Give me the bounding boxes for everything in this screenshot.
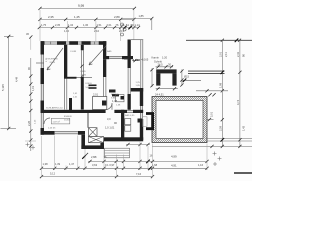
svg-text:ESSEN: ESSEN (64, 116, 72, 118)
middle wall left segment (41, 110, 105, 113)
entry steps (105, 148, 130, 158)
dimension line to detail (121, 18, 152, 20)
interior wall V1 (64, 45, 67, 77)
svg-text:20,95: 20,95 (50, 62, 56, 64)
svg-text:2,01: 2,01 (107, 23, 113, 27)
svg-text:1,75: 1,75 (41, 23, 47, 27)
plus marks lower right (213, 152, 217, 156)
bath left wall (121, 110, 124, 138)
svg-text:1,34: 1,34 (68, 23, 74, 27)
svg-text:2,41: 2,41 (236, 51, 240, 57)
cellar stair recess left wall (81, 135, 85, 149)
svg-text:=0,165: =0,165 (141, 59, 149, 62)
diagonal mark room1 (47, 48, 63, 70)
svg-text:7,16: 7,16 (136, 172, 142, 176)
diagonal mark room2 (89, 46, 106, 65)
svg-text:2,10: 2,10 (94, 29, 100, 33)
svg-text:1,51: 1,51 (97, 23, 103, 27)
extension lines top (39, 10, 41, 41)
svg-text:2,19: 2,19 (119, 29, 125, 33)
mini dim under bath (126, 144, 150, 146)
arrow right of garage (207, 119, 214, 121)
svg-text:0,1 0,97: 0,1 0,97 (105, 163, 115, 167)
dimension line row2 (40, 18, 134, 20)
svg-text:1,38: 1,38 (43, 162, 49, 166)
bath fixtures (125, 119, 131, 125)
svg-text:1,68: 1,68 (152, 163, 158, 167)
bath top wall (116, 110, 127, 113)
svg-text:1,87 m²: 1,87 m² (53, 120, 61, 123)
svg-text:2,59: 2,59 (218, 125, 222, 131)
svg-text:Ø15: Ø15 (184, 75, 189, 79)
lowest partial row (41, 176, 153, 178)
small tick top-left of wall (30, 36, 32, 49)
svg-text:1,39: 1,39 (55, 162, 61, 166)
middle wall door gap arc (106, 103, 113, 110)
horizontal lines lower right (206, 138, 252, 140)
svg-text:2,35: 2,35 (55, 23, 61, 27)
upper right wall (128, 40, 131, 69)
cellar stair recess bottom wall (81, 145, 104, 149)
tick at step wall end (124, 58, 129, 60)
canopy line and terrace lines (131, 39, 143, 41)
cellar stair recess right wall (100, 141, 104, 150)
svg-text:1,10: 1,10 (64, 29, 70, 33)
svg-text:BAD 4,95: BAD 4,95 (125, 114, 135, 117)
vertical dimension line A (221, 40, 223, 146)
extension lines bottom (41, 136, 43, 177)
svg-text:FLUR: FLUR (71, 51, 77, 53)
stair X box horizontal (89, 137, 104, 143)
svg-text:2,26 05: 2,26 05 (48, 128, 56, 130)
double horizontal line mid right (188, 70, 225, 72)
svg-text:KÜCHE: KÜCHE (111, 93, 119, 96)
door circles (121, 23, 124, 26)
svg-text:BAD: BAD (107, 50, 112, 53)
svg-text:5,12: 5,12 (50, 172, 56, 176)
svg-text:2,01: 2,01 (93, 93, 99, 97)
svg-text:10,50: 10,50 (64, 120, 70, 122)
stair box (93, 97, 107, 110)
bottom wall right segment (104, 137, 143, 141)
svg-text:DIELE: DIELE (86, 83, 93, 85)
garage hatched wall band (152, 97, 207, 143)
exterior left wall (41, 41, 45, 54)
upper partial row right (88, 160, 207, 162)
svg-text:9,99: 9,99 (78, 4, 84, 8)
dimension line overall (40, 7, 134, 9)
svg-text:4,91: 4,91 (171, 163, 177, 167)
boundary line top right (186, 39, 252, 41)
step vertical wall (103, 41, 106, 56)
step horizontal wall (103, 56, 109, 59)
bottom right dark line (234, 172, 252, 174)
detail bottom dim (156, 88, 178, 90)
detail top dim (156, 66, 174, 68)
left secondary vertical dimension (30, 58, 32, 151)
door arc lower-left window (44, 118, 50, 124)
svg-text:KIND: KIND (81, 71, 87, 73)
right exterior wall (140, 88, 143, 106)
dark fixture bar kitchen (109, 90, 116, 93)
interior wall H1 (64, 77, 77, 79)
svg-text:2,89: 2,89 (114, 15, 120, 19)
svg-text:5,01: 5,01 (210, 111, 214, 117)
bottom wall left part (41, 131, 55, 135)
interior wall V3 (103, 59, 106, 77)
svg-text:1,45: 1,45 (74, 15, 80, 19)
line above garage right (196, 90, 228, 92)
detail left dim (151, 68, 153, 87)
svg-text:1,0 1,01: 1,0 1,01 (105, 126, 115, 130)
svg-text:4,74: 4,74 (236, 99, 240, 105)
svg-text:5,115: 5,115 (1, 84, 5, 91)
door posts middle wall (104, 110, 106, 113)
detail right marks (181, 69, 183, 85)
svg-text:1,47: 1,47 (69, 162, 75, 166)
windows top wall (45, 42, 58, 45)
svg-text:1,14: 1,14 (135, 23, 141, 27)
stair X box vertical (89, 128, 98, 137)
detail U shape (156, 69, 176, 73)
exterior top wall piers (41, 41, 45, 45)
dimension line row3 (39, 27, 139, 29)
svg-text:2,35: 2,35 (48, 15, 54, 19)
F90 dashes (89, 85, 97, 87)
svg-text:1,01: 1,01 (31, 85, 35, 91)
svg-text:24,5: 24,5 (158, 62, 164, 66)
svg-text:2,88¹: 2,88¹ (91, 155, 97, 159)
interior wall V2 (81, 45, 84, 51)
svg-text:3,63: 3,63 (92, 163, 98, 167)
vertical dimension line B (239, 40, 241, 146)
jut wall right (131, 88, 143, 92)
svg-text:SCHLAFEN 14,0: SCHLAFEN 14,0 (46, 107, 63, 110)
svg-text:4,99: 4,99 (171, 154, 177, 158)
svg-text:1,16: 1,16 (198, 163, 204, 167)
black entry porch (146, 114, 153, 129)
svg-text:1,43: 1,43 (242, 125, 246, 131)
svg-text:1,135: 1,135 (133, 58, 141, 62)
vertical dimension line far left (8, 36, 10, 128)
svg-text:4,49: 4,49 (15, 76, 19, 82)
svg-text:1:20: 1:20 (162, 56, 168, 60)
windows left wall (41, 55, 44, 69)
svg-text:1,85: 1,85 (139, 14, 145, 18)
svg-text:2,26: 2,26 (27, 120, 31, 126)
svg-text:2,01: 2,01 (218, 51, 222, 57)
svg-text:1,98: 1,98 (218, 82, 222, 88)
svg-text:24 4,51: 24 4,51 (155, 93, 164, 97)
wall tick left (36, 62, 44, 64)
svg-text:Kamin: Kamin (152, 56, 160, 60)
svg-text:2,11: 2,11 (224, 52, 228, 57)
main bottom row (41, 167, 207, 169)
svg-text:1,36: 1,36 (83, 23, 89, 27)
svg-text:13,35: 13,35 (81, 75, 87, 77)
svg-text:1,38: 1,38 (112, 99, 118, 103)
svg-text:WOHNEN: WOHNEN (48, 59, 58, 61)
closet wall segment (69, 98, 72, 111)
svg-text:3,0: 3,0 (107, 117, 111, 121)
